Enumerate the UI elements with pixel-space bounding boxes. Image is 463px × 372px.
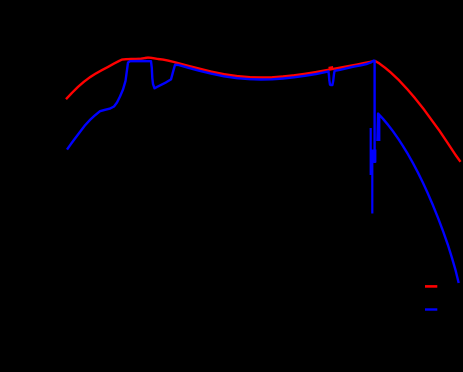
legend red sample dash [425,285,437,288]
blue curve (series 2) main polyline [67,61,375,163]
blue spike: lower continuation line to the deep minimum [371,160,373,214]
red small thick segment over blue notch near x=330 [329,66,334,70]
blue spike: stub right of main drop [378,116,380,141]
legend blue sample dash [425,308,437,310]
blue spike: merged blob where spikes overlap [370,150,376,163]
blue recovery branch (right descending arc) [377,114,458,283]
red curve (series 1) [66,58,461,162]
blue spike: secondary left drop line near x=370.6 [370,128,372,175]
